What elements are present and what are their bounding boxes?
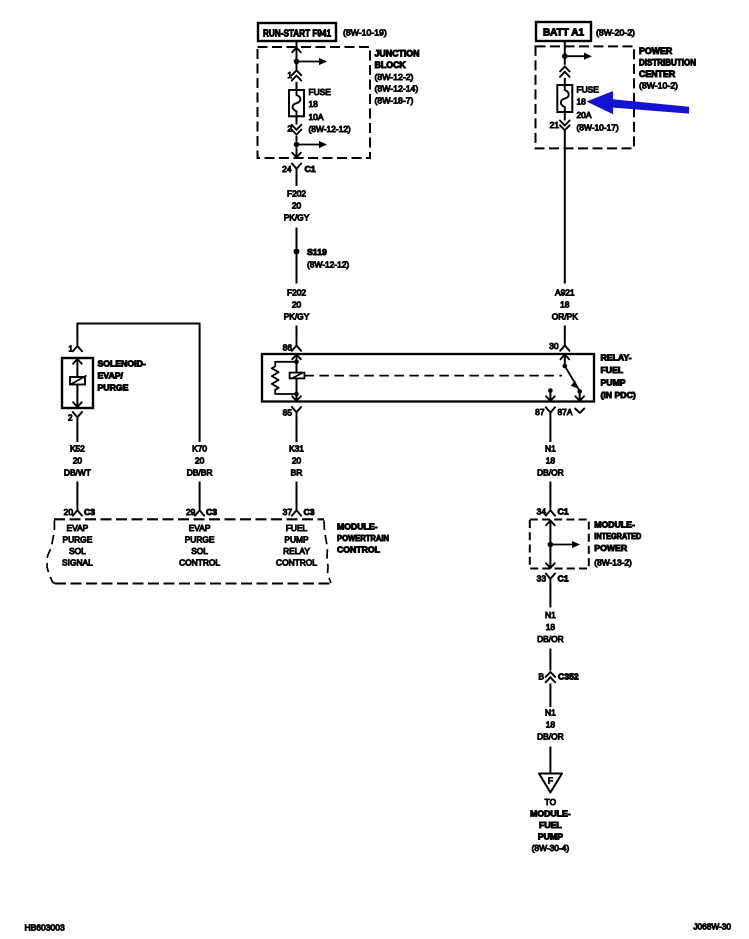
svg-text:FUEL: FUEL <box>539 820 562 830</box>
svg-text:TO: TO <box>545 797 557 807</box>
svg-text:20: 20 <box>195 456 205 466</box>
svg-text:B: B <box>538 671 544 681</box>
svg-text:SOL: SOL <box>191 546 208 556</box>
svg-text:(8W-10-17): (8W-10-17) <box>577 123 619 133</box>
svg-text:C3: C3 <box>84 507 95 517</box>
svg-text:F202: F202 <box>287 288 306 298</box>
svg-text:RELAY: RELAY <box>283 546 310 556</box>
svg-text:20: 20 <box>292 456 302 466</box>
svg-text:K31: K31 <box>289 444 304 454</box>
svg-text:2: 2 <box>287 123 292 133</box>
svg-text:18: 18 <box>546 720 556 730</box>
svg-text:(8W-13-2): (8W-13-2) <box>594 558 632 568</box>
svg-text:18: 18 <box>546 622 556 632</box>
svg-text:INTEGRATED: INTEGRATED <box>594 531 641 541</box>
svg-text:(8W-12-12): (8W-12-12) <box>309 124 351 134</box>
svg-text:PUMP: PUMP <box>538 831 563 841</box>
svg-text:DB/OR: DB/OR <box>537 634 564 644</box>
svg-text:18: 18 <box>309 99 319 109</box>
svg-text:K70: K70 <box>192 444 207 454</box>
svg-text:BATT A1: BATT A1 <box>543 28 585 39</box>
svg-text:(8W-30-4): (8W-30-4) <box>532 843 570 853</box>
svg-text:DB/OR: DB/OR <box>537 468 564 478</box>
svg-text:FUEL: FUEL <box>601 365 624 375</box>
svg-text:POWER: POWER <box>594 543 628 553</box>
svg-text:DB/BR: DB/BR <box>187 468 213 478</box>
svg-text:10A: 10A <box>309 112 324 122</box>
svg-text:HB603003: HB603003 <box>25 922 65 932</box>
svg-text:A921: A921 <box>555 288 575 298</box>
svg-text:BLOCK: BLOCK <box>375 60 407 70</box>
svg-text:DB/WT: DB/WT <box>64 468 91 478</box>
svg-text:FUEL: FUEL <box>286 523 308 533</box>
svg-text:FUSE: FUSE <box>577 85 600 95</box>
svg-text:(8W-12-14): (8W-12-14) <box>375 84 419 94</box>
svg-text:C3: C3 <box>206 507 217 517</box>
svg-text:POWER: POWER <box>639 46 673 56</box>
svg-text:34: 34 <box>537 506 547 516</box>
svg-text:20: 20 <box>73 456 83 466</box>
svg-text:2: 2 <box>68 412 73 422</box>
svg-text:EVAP: EVAP <box>189 523 211 533</box>
svg-text:OR/PK: OR/PK <box>552 312 578 322</box>
svg-text:20: 20 <box>292 300 302 310</box>
svg-text:MODULE-: MODULE- <box>530 808 571 818</box>
svg-text:PK/GY: PK/GY <box>284 312 310 322</box>
svg-text:C1: C1 <box>558 506 569 516</box>
svg-text:BR: BR <box>291 468 303 478</box>
svg-text:20: 20 <box>64 507 74 517</box>
svg-text:85: 85 <box>283 407 293 417</box>
svg-text:(8W-10-19): (8W-10-19) <box>343 27 387 37</box>
svg-text:POWERTRAIN: POWERTRAIN <box>337 533 389 543</box>
svg-text:RELAY-: RELAY- <box>601 353 632 363</box>
svg-text:MODULE-: MODULE- <box>594 519 635 529</box>
svg-text:EVAP: EVAP <box>67 523 89 533</box>
svg-text:F: F <box>548 776 553 786</box>
svg-text:J068W-30: J068W-30 <box>693 922 731 932</box>
svg-text:F202: F202 <box>287 189 306 199</box>
svg-text:PUMP: PUMP <box>284 534 309 544</box>
svg-text:FUSE: FUSE <box>309 87 332 97</box>
svg-text:(8W-18-7): (8W-18-7) <box>375 95 414 105</box>
svg-text:DB/OR: DB/OR <box>537 732 564 742</box>
svg-text:(8W-12-12): (8W-12-12) <box>307 259 349 269</box>
svg-text:PURGE: PURGE <box>185 534 215 544</box>
svg-text:SOL: SOL <box>69 546 86 556</box>
svg-text:37: 37 <box>283 507 293 517</box>
svg-text:PUMP: PUMP <box>601 378 626 388</box>
svg-text:21: 21 <box>550 120 560 130</box>
svg-text:N1: N1 <box>545 708 556 718</box>
svg-text:SIGNAL: SIGNAL <box>62 558 93 568</box>
svg-text:CENTER: CENTER <box>639 69 676 79</box>
svg-text:CONTROL: CONTROL <box>276 558 317 568</box>
svg-text:N1: N1 <box>545 610 556 620</box>
svg-text:86: 86 <box>283 342 293 352</box>
svg-text:SOLENOID-: SOLENOID- <box>98 358 146 368</box>
svg-text:JUNCTION: JUNCTION <box>375 49 420 59</box>
svg-text:18: 18 <box>577 97 587 107</box>
svg-text:87A: 87A <box>558 407 573 417</box>
svg-text:CONTROL: CONTROL <box>179 558 220 568</box>
svg-text:(8W-12-2): (8W-12-2) <box>375 72 414 82</box>
svg-text:C3: C3 <box>304 507 315 517</box>
svg-text:N1: N1 <box>545 444 556 454</box>
svg-text:K52: K52 <box>70 444 85 454</box>
svg-text:(8W-10-2): (8W-10-2) <box>639 81 678 91</box>
svg-text:18: 18 <box>560 300 570 310</box>
svg-text:C352: C352 <box>558 671 579 681</box>
svg-text:S119: S119 <box>307 247 327 257</box>
svg-text:DISTRIBUTION: DISTRIBUTION <box>639 58 696 68</box>
svg-text:(8W-20-2): (8W-20-2) <box>596 27 635 37</box>
svg-text:18: 18 <box>546 456 556 466</box>
svg-text:20: 20 <box>292 201 302 211</box>
svg-text:C1: C1 <box>305 164 316 174</box>
svg-text:MODULE-: MODULE- <box>337 521 378 531</box>
svg-text:30: 30 <box>549 341 559 351</box>
svg-text:24: 24 <box>282 164 292 174</box>
svg-text:33: 33 <box>537 574 547 584</box>
svg-text:CONTROL: CONTROL <box>337 544 381 554</box>
svg-text:PURGE: PURGE <box>63 534 93 544</box>
svg-text:20A: 20A <box>577 110 592 120</box>
svg-text:PURGE: PURGE <box>98 382 129 392</box>
svg-text:(IN PDC): (IN PDC) <box>601 390 636 400</box>
svg-text:87: 87 <box>535 407 545 417</box>
svg-text:RUN-START F941: RUN-START F941 <box>263 28 331 39</box>
svg-text:EVAP/: EVAP/ <box>98 370 124 380</box>
svg-text:PK/GY: PK/GY <box>284 213 310 223</box>
svg-text:C1: C1 <box>558 574 569 584</box>
